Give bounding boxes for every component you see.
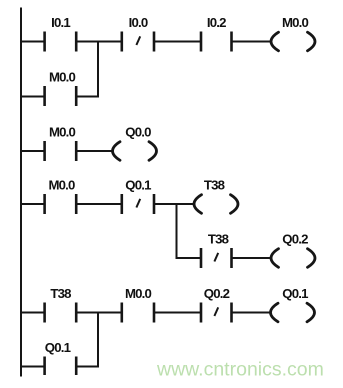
svg-text:Q0.0: Q0.0 bbox=[125, 125, 151, 140]
svg-text:Q0.1: Q0.1 bbox=[282, 286, 308, 301]
svg-text:M0.0: M0.0 bbox=[48, 178, 75, 193]
svg-text:M0.0: M0.0 bbox=[282, 15, 309, 30]
svg-text:T38: T38 bbox=[204, 178, 225, 193]
svg-text:I0.1: I0.1 bbox=[51, 15, 70, 30]
svg-text:Q0.1: Q0.1 bbox=[45, 340, 71, 355]
svg-text:M0.0: M0.0 bbox=[49, 125, 76, 140]
svg-text:M0.0: M0.0 bbox=[49, 70, 76, 85]
svg-text:I0.2: I0.2 bbox=[207, 15, 226, 30]
svg-text:Q0.2: Q0.2 bbox=[282, 232, 308, 247]
svg-text:www.cntronics.com: www.cntronics.com bbox=[156, 359, 324, 381]
svg-text:Q0.1: Q0.1 bbox=[125, 178, 151, 193]
svg-text:T38: T38 bbox=[208, 232, 229, 247]
svg-text:I0.0: I0.0 bbox=[129, 15, 148, 30]
svg-text:Q0.2: Q0.2 bbox=[204, 286, 230, 301]
svg-text:T38: T38 bbox=[50, 286, 71, 301]
svg-text:M0.0: M0.0 bbox=[125, 286, 152, 301]
